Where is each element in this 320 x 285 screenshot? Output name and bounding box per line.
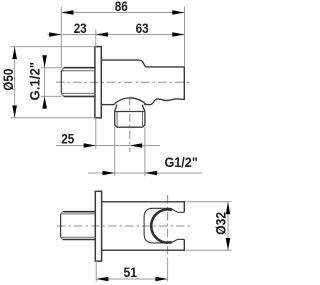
dim D32 line (227, 202, 229, 250)
dim G.1/2 bottom arrow (outside, pointing up) (42, 96, 47, 108)
body underside left of outlet boss (101, 104, 114, 106)
dim 23/63 line (48, 34, 185, 36)
svg-text:25: 25 (61, 131, 74, 147)
dim 86 line (61, 12, 184, 14)
dim D50 top arrow (12, 47, 17, 59)
label G1/2 left outside arrow (103, 171, 115, 176)
body outline (side view) (101, 60, 184, 105)
dim 25 right outside arrow (130, 143, 142, 148)
wall nipple G1/2 (side view, threaded) (64, 68, 95, 97)
flange (bottom view) (95, 191, 101, 261)
dim 51 right arrow (155, 277, 167, 282)
outlet boss intersection arc (114, 98, 146, 105)
dim G.1/2 extension lines (41, 68, 61, 97)
holder slot mouth (178, 212, 185, 239)
svg-text:23: 23 (74, 20, 87, 36)
dim 25 line (56, 145, 160, 147)
wall nipple (bottom view, threaded) (63, 212, 95, 240)
flange (wall rosette, side view) (95, 47, 101, 118)
dim D50 extension lines (10, 47, 95, 118)
dim D32 top arrow (226, 202, 231, 214)
dim 51 left arrow (96, 277, 108, 282)
svg-text:Ø50: Ø50 (0, 69, 16, 91)
label G1/2 right outside arrow (145, 171, 157, 176)
dim D32 bottom arrow (226, 238, 231, 250)
svg-text:G.1/2": G.1/2" (27, 62, 43, 101)
centerline: outlet nipple vertical axis (129, 97, 131, 153)
svg-text:86: 86 (115, 0, 128, 14)
outlet nipple G1/2 (side view, threaded) (115, 112, 145, 128)
dim 51 extension lines (95, 261, 97, 282)
dim 86 right arrow (172, 10, 184, 15)
outlet boss sides (115, 105, 145, 112)
dim G.1/2 top arrow (outside, pointing down) (42, 55, 47, 67)
extension line left (x=61.3) (60, 7, 62, 68)
label G1/2 leader line (88, 172, 202, 174)
extension line middle (x=95.8) (95, 30, 97, 47)
centerline: bottom view horizontal axis (57, 225, 190, 227)
body (bottom view) (102, 202, 185, 250)
svg-text:63: 63 (136, 20, 149, 36)
dim 25 left outside arrow (84, 143, 96, 148)
extension line right (x=184.5) (184, 7, 186, 67)
holder cup C-profile (thick) (151, 209, 172, 242)
dim D50 line (14, 47, 16, 118)
holder cup outer wall (144, 208, 171, 243)
extension: flange face down (x=95.8) (95, 118, 97, 149)
centerline: side view horizontal axis (56, 81, 190, 83)
svg-text:Ø32: Ø32 (213, 212, 229, 235)
svg-text:51: 51 (124, 264, 138, 280)
dim D50 bottom arrow (12, 106, 17, 118)
dim D32 extension lines (186, 202, 232, 250)
dim 63 right arrow (172, 32, 184, 37)
holder slot diagonals (171, 208, 178, 243)
extension: outlet nipple edges down (115, 127, 145, 176)
svg-text:G1/2": G1/2" (165, 154, 198, 170)
centerline: holder cup vertical axis (167, 195, 169, 258)
dim 23 left outside arrow (49, 32, 61, 37)
dim 51 line (96, 278, 167, 280)
shared arrow at flange face (96, 32, 108, 37)
dim G.1/2 line (44, 56, 46, 109)
dim 86 left arrow (61, 10, 73, 15)
